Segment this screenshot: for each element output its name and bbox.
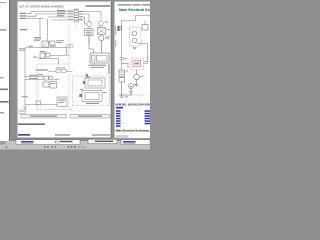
connector mark on pink wire [120, 58, 124, 60]
battery cell 1 [119, 70, 125, 77]
svg-text:Main Electrical Schema: Main Electrical Schema [119, 8, 150, 12]
field center text [60, 141, 73, 143]
connector X1 pin stack [74, 11, 79, 22]
battery side marks [110, 56, 112, 57]
footer center [55, 134, 70, 135]
bookmarks sidebar [0, 0, 9, 141]
svg-text:Main Electrical Schematic, E: Main Electrical Schematic, E [116, 129, 151, 133]
solenoid S-A [85, 78, 105, 88]
node label left [20, 29, 27, 30]
ECU relay box [44, 76, 49, 80]
wire label 2W [29, 46, 34, 47]
fuse cluster lower box A [40, 53, 45, 58]
ground under motor [135, 85, 139, 87]
right page margin text vertical [115, 26, 116, 35]
fuse label F2 [57, 13, 65, 14]
fuse cluster label [40, 51, 46, 52]
fuse F3 circle [87, 22, 92, 27]
connector label [125, 58, 128, 59]
svg-text:LIST OF CENTER WIRING HARNESS: LIST OF CENTER WIRING HARNESS [19, 5, 64, 9]
sidebar bookmark text fragments [0, 29, 7, 31]
comp2 left stub [79, 94, 82, 97]
ground bottom right page [120, 96, 124, 98]
wire label W2 [20, 15, 27, 16]
wire X1 to fuse F3 [79, 14, 90, 22]
pin label row4 [68, 19, 73, 20]
wire row 3 to connector [48, 16, 74, 18]
lamp circle [129, 84, 134, 89]
ECU block C [50, 82, 57, 89]
wire drop to mid cluster [39, 18, 41, 38]
page title right [86, 5, 111, 7]
relay K1 coil [98, 21, 103, 26]
contents link [116, 107, 123, 109]
filename link text [21, 141, 34, 143]
right page header text [118, 4, 132, 5]
wire label above bus [22, 96, 29, 97]
note text [18, 123, 45, 125]
inline connector pair on main wire [66, 45, 69, 48]
wire lower mid [38, 59, 59, 64]
comp2 top label [80, 88, 84, 91]
caption bar left [21, 115, 67, 119]
wire lower cluster [50, 54, 67, 56]
revision box [19, 110, 26, 114]
ground label [125, 96, 129, 97]
mid cluster label block [34, 37, 41, 38]
starter solenoid pink box [133, 61, 141, 67]
footer left link [18, 134, 30, 136]
comp1 left stub [83, 81, 85, 84]
relay K1 label [105, 22, 109, 23]
coil circle lower [132, 38, 137, 43]
harness dashed boundary [68, 24, 70, 110]
comp1 feed wire [86, 74, 88, 79]
solenoid label [145, 61, 148, 62]
wire relay chain [100, 26, 103, 36]
link list left column [116, 110, 121, 112]
bottom wire right page [119, 94, 133, 96]
wire row 4 to connector [52, 19, 74, 21]
wire drop to switch box [47, 18, 49, 41]
footer right [92, 134, 110, 135]
implement caption [86, 103, 99, 104]
ECU dashed box [37, 64, 72, 110]
wire label left [19, 48, 26, 49]
wire A2 down [88, 26, 90, 44]
wire X1 row4 stub [79, 19, 84, 21]
wire label mid [50, 46, 56, 47]
connector X1 dashed drop [75, 22, 77, 30]
wire alternator to battery [89, 36, 101, 53]
pin label row3 [68, 16, 73, 17]
tiny toolbar dot [5, 146, 8, 148]
page right margin marks [108, 64, 109, 74]
left page bottom edge [18, 137, 112, 140]
wire ground bus [25, 104, 57, 106]
wire X1 row3 [79, 17, 87, 24]
key switch S1 [42, 41, 49, 47]
solenoid S-B [82, 91, 102, 102]
resistor block R1 [97, 28, 105, 35]
connector row label [36, 69, 48, 70]
pin label row1 [68, 10, 73, 11]
wire battery down [121, 82, 123, 95]
status box right [121, 140, 150, 145]
small sensor on bus [36, 101, 41, 105]
ground under ignition [133, 48, 137, 50]
implement dashed box right [73, 76, 110, 106]
svg-text:B0M B01: B02 B03 B04 B050: B0M B01: B02 B03 B04 B050 [116, 102, 151, 106]
wire label W3 [20, 18, 27, 19]
coil circle upper [132, 31, 137, 36]
connector X1 pin labels [79, 11, 83, 12]
toolbar icons left [44, 146, 46, 148]
sensor circle small [130, 91, 132, 93]
wire motor to ground [136, 80, 138, 84]
wire ECU row1 [25, 76, 44, 78]
wire from label W2 [27, 14, 74, 16]
comp1 top label [85, 75, 89, 78]
starter motor M [134, 74, 140, 80]
wire from label W3 [27, 17, 44, 19]
start aid box [57, 97, 67, 107]
ECU block B [43, 82, 49, 87]
pink wire stub right [122, 64, 129, 69]
fuse label F3t [57, 15, 64, 16]
wire left stub [19, 49, 26, 51]
field divider + dropdown arrow [54, 140, 57, 144]
battery label [89, 65, 107, 66]
grey button on page [116, 136, 128, 139]
ECU wire labels [29, 75, 38, 76]
ECU coil [49, 76, 53, 80]
pink wire to relay K [144, 21, 146, 25]
inline connector labels [56, 67, 65, 68]
ECU side label [54, 79, 59, 80]
inline connector row box B [62, 69, 67, 72]
battery BT1 [90, 53, 109, 63]
module A2 [85, 29, 93, 36]
pink wire main run [122, 21, 136, 70]
right page sheet [115, 2, 151, 140]
wire ECU row2 [25, 79, 44, 81]
fuse label F1 [57, 10, 65, 11]
ECU top label [38, 74, 43, 75]
wire lamp down [130, 89, 132, 96]
wire label 1W [33, 57, 38, 58]
battery cell 2 [119, 78, 125, 83]
fuse cluster lower box B [46, 53, 50, 57]
relay box top right [142, 25, 148, 31]
sidebar bottom stub [0, 141, 6, 145]
wire solenoid to motor [136, 70, 138, 74]
wire from label W1 [27, 12, 74, 14]
wire main horizontal [25, 48, 70, 55]
switch aux box [50, 41, 56, 45]
caption bar right [70, 115, 110, 119]
wire X1 to relay K1 [79, 12, 102, 20]
filename field [16, 140, 80, 145]
wire relay to starter [137, 44, 148, 64]
R1 side label [107, 29, 110, 30]
link list right column [145, 110, 151, 112]
toolbar background [0, 141, 150, 150]
alternator G1 [99, 36, 104, 41]
viewer background [0, 0, 150, 150]
alternator label [105, 36, 110, 37]
pink wire top edge [136, 16, 151, 21]
wire label 4-2.0 [44, 53, 49, 54]
starter dashed box [131, 58, 144, 70]
key switch (right page) [119, 26, 122, 31]
connector row wire [48, 70, 73, 72]
ignition dashed box [130, 27, 142, 46]
switch label [56, 40, 64, 41]
inline connector row box A [56, 69, 60, 72]
ground G-left [23, 107, 27, 109]
left page sheet [18, 2, 112, 139]
battery label [126, 71, 129, 72]
status box mid [88, 139, 117, 143]
toolbar icons mid [68, 146, 70, 148]
right page bottom edge [115, 138, 151, 141]
lamp label [135, 84, 138, 85]
wire label W1 [20, 13, 27, 14]
left bus wire [24, 48, 26, 107]
pin label row2 [68, 13, 73, 14]
